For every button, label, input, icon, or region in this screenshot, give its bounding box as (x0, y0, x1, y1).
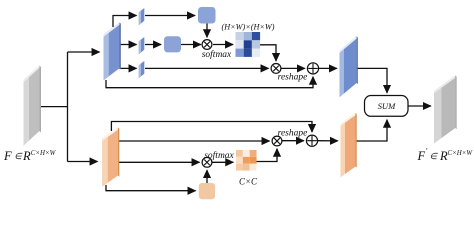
wire PAM multiply2 to plus (281, 67, 305, 69)
PAM multiply2 operator (271, 64, 281, 74)
wire PAM square B2 down to multiply (206, 24, 208, 38)
SUM box (365, 96, 409, 117)
input feature map F (gray slab) (24, 66, 42, 146)
wire PAM row1 from slab top to slice B1 (113, 16, 137, 28)
CAM multiply1 operator (202, 157, 212, 167)
wire PAM output to SUM (357, 68, 387, 92)
wire CAM row3 slab to multiply1 (118, 161, 200, 163)
wire SUM to output F' (408, 105, 431, 107)
svg-text:′: ′ (426, 147, 428, 156)
label softmax PAM (202, 49, 232, 60)
PAM slice D1 (139, 61, 145, 78)
label (HxW)x(HxW) (222, 23, 275, 32)
PAM square B2 (198, 7, 216, 24)
wire PAM residual to plus (106, 77, 313, 88)
svg-text:C×C: C×C (239, 177, 258, 187)
wire CAM row2 slab to multiply3 (118, 140, 270, 142)
label F (3, 149, 57, 163)
PAM attention matrix (HxW)x(HxW) (236, 32, 261, 57)
output feature map F' (gray slab) (434, 76, 457, 144)
wire junction to PAM input (68, 51, 100, 53)
CAM multiply3 operator (272, 136, 282, 146)
wire PAM plus to output slab (319, 67, 337, 69)
svg-text:SUM: SUM (378, 101, 397, 111)
wire CAM residual top (111, 122, 312, 133)
label reshape PAM (278, 73, 308, 83)
wire PAM slice C1 to square C2 (145, 44, 161, 46)
PAM slice B1 (139, 8, 145, 25)
svg-text:∈: ∈ (430, 151, 439, 161)
PAM slice C1 (139, 37, 145, 54)
svg-text:∈: ∈ (14, 151, 23, 161)
PAM square C2 (164, 36, 181, 52)
svg-text:F: F (417, 149, 426, 163)
wire junction vertical (67, 52, 69, 162)
wire CAM multiply1 to matrix (212, 161, 233, 163)
CAM attention matrix CxC (236, 150, 257, 171)
svg-text:softmax: softmax (202, 49, 232, 60)
svg-text:reshape: reshape (278, 73, 308, 83)
label reshape CAM (278, 129, 308, 139)
label CxC (239, 177, 258, 187)
wire PAM slice B1 to square B2 (145, 15, 195, 17)
svg-text:softmax: softmax (204, 150, 234, 161)
wire CAM output to SUM (356, 120, 388, 141)
label F' (417, 147, 474, 164)
CAM small square (199, 183, 215, 199)
wire CAM slab bottom to small square (106, 185, 196, 191)
svg-text:(H×W)×(H×W): (H×W)×(H×W) (222, 23, 275, 32)
PAM multiply operator (202, 40, 212, 50)
wire CAM small square up to multiply1 (206, 170, 208, 183)
svg-text:F: F (3, 149, 12, 163)
wire PAM square C2 to multiply (181, 44, 201, 46)
svg-text:C×H×W: C×H×W (31, 150, 57, 157)
wire junction to CAM input (68, 161, 98, 163)
PAM plus operator (307, 63, 318, 74)
svg-text:C×H×W: C×H×W (448, 150, 474, 157)
label softmax CAM (204, 150, 234, 161)
wire F to junction (40, 106, 68, 108)
wire PAM multiply to attention matrix (213, 44, 233, 46)
wire CAM matrix up to multiply3 (257, 149, 278, 162)
wire CAM plus2 to output slab (318, 140, 338, 142)
CAM output slab E2 (orange) (341, 113, 357, 177)
wire PAM row2 slab to slice C1 (120, 44, 137, 46)
PAM output slab E (blue) (340, 36, 358, 97)
svg-text:R: R (22, 149, 31, 163)
wire PAM row3 slab to slice D1 (120, 67, 137, 69)
PAM input slab A (blue) (104, 23, 121, 81)
CAM input slab A2 (orange) (102, 128, 119, 187)
wire PAM matrix to multiply2 (260, 45, 276, 61)
CAM plus2 operator (306, 135, 317, 146)
wire PAM slice D1 to multiply2 (145, 67, 269, 69)
svg-text:reshape: reshape (278, 129, 308, 139)
wire CAM multiply3 to plus2 (282, 140, 304, 142)
